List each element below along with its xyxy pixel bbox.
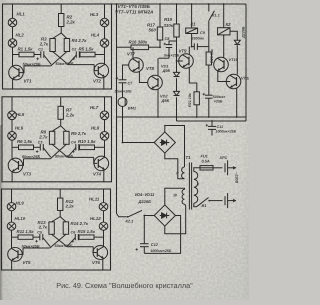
wire emitter left to rail	[12, 79, 14, 89]
wire lamp chain right top	[103, 189, 105, 203]
wire between lamps right	[104, 120, 106, 132]
lamp HL11	[99, 203, 108, 211]
wire lamp to VT collector right	[104, 140, 106, 157]
wire bus to K2.1	[117, 214, 127, 217]
wire C7 to microphone	[122, 83, 124, 98]
resistor R14	[63, 222, 68, 234]
svg-text:HL9: HL9	[16, 201, 25, 206]
lamp HL7	[100, 111, 109, 120]
svg-text:С11: С11	[217, 125, 224, 129]
wire C to base node left	[44, 55, 51, 64]
junction on top rail	[176, 3, 178, 5]
svg-text:Д9Б: Д9Б	[162, 68, 171, 73]
wire top to R	[60, 97, 62, 107]
svg-text:VD4–VD11: VD4–VD11	[135, 192, 155, 197]
capacitor С8	[166, 45, 173, 48]
wire to base of left transistor	[18, 248, 23, 254]
resistor R1	[19, 52, 34, 57]
svg-text:С4: С4	[71, 140, 76, 144]
wire R16 to R17 node	[149, 46, 161, 48]
svg-text:С12: С12	[151, 242, 159, 247]
dashed frame of multivibrator block 2	[2, 97, 112, 182]
lamp HL4	[100, 39, 109, 48]
wire top to R	[60, 4, 62, 14]
lamp HL5	[8, 111, 17, 120]
wire C11 stub	[211, 129, 213, 135]
wire main vertical bus	[116, 4, 118, 214]
lamp HL1	[8, 18, 17, 27]
capacitor С5	[40, 234, 43, 240]
transistor VT11	[226, 74, 241, 89]
wire R to split	[60, 27, 62, 34]
svg-text:50мк×25Б: 50мк×25Б	[55, 155, 73, 159]
svg-text:0,5А: 0,5А	[202, 158, 210, 163]
wire rail to K2	[223, 4, 225, 28]
wire lamp chain left top	[11, 189, 13, 203]
junction on lower rail	[236, 116, 238, 118]
svg-text:R6 1,5к: R6 1,5к	[17, 139, 33, 144]
capacitor С10	[205, 95, 213, 98]
wire lamp chain left top	[11, 97, 13, 111]
resistor R15	[79, 235, 94, 239]
relay K2	[218, 28, 230, 35]
svg-text:5мк×25Б: 5мк×25Б	[164, 54, 180, 58]
wire lamp chain right top	[104, 4, 106, 18]
svg-text:R5 1,5к: R5 1,5к	[79, 46, 95, 51]
wire lamp to VT collector left	[11, 140, 13, 158]
svg-text:VT2: VT2	[93, 79, 102, 84]
lamp HL6	[8, 132, 17, 141]
svg-text:2,7к: 2,7к	[39, 42, 49, 47]
wire between lamps left	[12, 27, 14, 39]
wire VT9 collector up	[188, 47, 190, 55]
wire emitter right to rail	[103, 77, 105, 89]
svg-text:2,2к: 2,2к	[66, 20, 76, 25]
junction on lower rail	[208, 116, 210, 118]
plus sign	[136, 248, 139, 251]
plug XP1 lower pin	[225, 193, 228, 208]
wire rail to K1.1	[208, 4, 210, 12]
junction on lower rail	[176, 116, 178, 118]
svg-text:ВМ1: ВМ1	[128, 106, 136, 111]
svg-text:VT7–VT11 МП42А: VT7–VT11 МП42А	[115, 10, 153, 15]
junction on top rail	[116, 3, 118, 5]
wire bridge2 top to winding III	[165, 188, 185, 205]
wire lamp to VT collector right	[103, 230, 105, 246]
wire K2.1 to bridge VD8-VD11	[145, 215, 155, 217]
resistor R13	[49, 222, 54, 234]
svg-text:HL10: HL10	[15, 216, 26, 221]
svg-text:Рис. 49. Схема "Волшебного кри: Рис. 49. Схема "Волшебного кристалла"	[56, 281, 193, 290]
wire right edge join	[245, 117, 247, 121]
svg-text:R9 2,7к: R9 2,7к	[71, 131, 87, 136]
junction	[191, 46, 193, 48]
wire switch to plug	[209, 200, 222, 202]
junction	[159, 46, 161, 48]
transistor VT3	[8, 158, 23, 173]
svg-text:2,2к: 2,2к	[65, 204, 75, 209]
plus sign	[72, 240, 75, 242]
svg-text:R21 10к: R21 10к	[188, 92, 192, 107]
transistor VT10	[214, 57, 229, 72]
winding III	[182, 189, 184, 204]
winding II	[182, 167, 185, 179]
svg-text:R11 1,5к: R11 1,5к	[17, 229, 35, 234]
wire split right diagonal	[60, 217, 66, 222]
wire collector node right	[95, 146, 105, 148]
lamp HL10	[7, 222, 16, 230]
svg-text:В1: В1	[202, 203, 207, 208]
wire VT9 base to diodes	[177, 60, 183, 62]
lamp HL8	[100, 132, 109, 141]
wire split left diagonal	[52, 217, 61, 222]
wire bridge top to winding II	[165, 126, 185, 168]
wire VT9 emitter to R21	[189, 67, 197, 92]
wire VD1 to VD2	[176, 78, 178, 91]
svg-text:ХР1: ХР1	[219, 155, 227, 160]
wire R21 to lower rail	[196, 105, 198, 117]
wire VT8 emitter to lower rail	[157, 89, 159, 117]
transistor VT1	[9, 65, 24, 80]
svg-text:50мк×25Б: 50мк×25Б	[23, 62, 41, 66]
wire between lamps left	[11, 211, 13, 222]
wire cross right-to-left	[51, 52, 67, 66]
svg-text:VT1–VT6 П39Б: VT1–VT6 П39Б	[118, 4, 151, 9]
wire winding I bottom to switch	[194, 203, 197, 207]
svg-text:Д226Б: Д226Б	[138, 199, 152, 204]
wire C7 top lead	[122, 72, 124, 80]
svg-text:Т1: Т1	[186, 155, 192, 160]
svg-text:500мк×: 500мк×	[213, 95, 226, 99]
capacitor С4	[76, 144, 79, 151]
resistor R7	[58, 106, 63, 119]
wire base VT left	[23, 247, 50, 249]
wire emitter right to rail	[102, 258, 104, 270]
wire collector left	[12, 65, 14, 68]
svg-text:HL8: HL8	[91, 125, 100, 130]
wire lamp to VT collector left	[11, 230, 13, 247]
wire right edge bus	[245, 4, 247, 117]
capacitor С11	[208, 126, 216, 129]
svg-text:К1.1: К1.1	[212, 13, 220, 18]
wire VT7 collector up	[132, 47, 134, 59]
capacitor С6	[75, 234, 78, 240]
wire between lamps right	[104, 27, 106, 39]
wire collector node right	[94, 236, 104, 238]
wire cross left-to-right	[52, 234, 68, 246]
wire lamp chain right top	[104, 97, 106, 111]
wire R19 to VD1 node	[176, 37, 178, 61]
wire C12 bottom	[143, 247, 145, 254]
svg-text:К2: К2	[226, 22, 232, 27]
wire C to base node right	[68, 55, 76, 64]
svg-text:VT11: VT11	[241, 76, 249, 81]
svg-text:К1: К1	[191, 22, 197, 27]
diode VD3	[234, 40, 240, 44]
svg-text:2,2к: 2,2к	[65, 112, 75, 117]
wire R to C right	[77, 236, 80, 238]
capacitor С9	[194, 43, 197, 50]
plus sign	[206, 124, 209, 127]
plus sign	[73, 58, 76, 61]
wire to base of left transistor	[19, 66, 24, 73]
wire collector left	[11, 157, 13, 160]
wire base VT right	[67, 246, 93, 248]
svg-text:3300мк: 3300мк	[192, 37, 205, 41]
wire bus to R16	[117, 46, 132, 48]
wire C8 to VT8 collector	[159, 57, 170, 59]
svg-text:VT8: VT8	[146, 66, 155, 71]
svg-text:Д9Б: Д9Б	[161, 98, 170, 103]
resistor R17	[157, 27, 162, 40]
resistor R9	[64, 131, 69, 144]
junction on top rail	[223, 3, 225, 5]
wire base VT left	[24, 158, 51, 160]
svg-text:R20 56к: R20 56к	[210, 48, 214, 63]
wire collector node left	[12, 236, 19, 238]
wire R17 to node	[159, 40, 161, 47]
svg-text:560: 560	[149, 28, 157, 33]
junction on top rail	[159, 3, 161, 5]
wire C to base node right	[67, 238, 75, 247]
svg-text:50мк×10Б: 50мк×10Б	[115, 90, 133, 94]
wire top supply rail	[112, 3, 246, 5]
wire winding I top to fuse	[194, 168, 200, 172]
wire R to split	[60, 119, 62, 126]
svg-text:×25Б: ×25Б	[214, 100, 223, 104]
transistor VT4	[94, 156, 109, 171]
wire base VT right	[68, 64, 94, 66]
capacitor С7	[119, 80, 127, 83]
svg-text:HL12: HL12	[90, 216, 101, 221]
svg-text:R1 1,5к: R1 1,5к	[18, 46, 34, 51]
transistor VT7	[129, 58, 144, 73]
resistor R2	[59, 14, 64, 27]
svg-text:R19: R19	[164, 17, 173, 22]
resistor R11	[18, 235, 33, 239]
svg-text:R15 1,5к: R15 1,5к	[78, 229, 96, 234]
junction on lower rail	[196, 116, 198, 118]
plug XP1 upper pin	[225, 160, 228, 175]
wire R to split	[59, 210, 61, 216]
wire split right diagonal	[61, 126, 67, 132]
wire collector right	[104, 156, 106, 158]
svg-text:50мк×25Б: 50мк×25Б	[22, 245, 40, 249]
wire to C9 left plate	[192, 46, 195, 48]
svg-text:Д226Б: Д226Б	[242, 26, 246, 39]
svg-text:К2.1: К2.1	[126, 219, 134, 224]
wire lamp to VT collector left	[12, 47, 14, 65]
wire lower rail	[117, 116, 247, 118]
transistor VT2	[94, 63, 109, 78]
wire C to base node left	[43, 148, 50, 157]
resistor R19	[174, 24, 179, 37]
svg-text:1000мк×25Б: 1000мк×25Б	[150, 249, 172, 253]
svg-text:R16 380к: R16 380к	[129, 39, 148, 44]
transistor VT9	[179, 54, 194, 69]
junction on top rail	[191, 3, 193, 5]
wire split right diagonal	[61, 33, 67, 39]
arrowheads for plug pins	[233, 166, 236, 169]
wire K1.1 down to R20	[208, 21, 210, 52]
capacitor С12	[140, 244, 149, 247]
wire between lamps left	[11, 120, 13, 132]
wire R to C left	[34, 54, 41, 56]
wire VT7 base to C7	[123, 65, 129, 72]
wire C9 to K1.1 column	[197, 46, 208, 48]
bridge rectifier VD8-VD11	[154, 205, 175, 226]
wire split left diagonal	[53, 33, 62, 39]
plus sign	[72, 150, 75, 153]
wire to base of right transistor	[94, 157, 98, 163]
wire C8 bottom	[168, 48, 170, 59]
svg-text:VT1: VT1	[24, 79, 33, 84]
wire to base of right transistor	[94, 65, 98, 71]
wire VT11 emitter to lower rail	[236, 88, 238, 117]
svg-text:VT9: VT9	[179, 49, 188, 54]
wire to VD1	[176, 61, 178, 72]
svg-text:VT6: VT6	[92, 260, 101, 265]
svg-text:2,7к: 2,7к	[38, 225, 48, 230]
wire second lower rail	[177, 120, 247, 122]
wire to base of left transistor	[19, 159, 24, 166]
svg-text:VT7: VT7	[127, 52, 136, 57]
wire VT7 emitter to VT8 base	[139, 71, 147, 82]
resistor R16	[131, 45, 149, 50]
capacitor С2	[76, 51, 79, 58]
svg-text:HL7: HL7	[90, 105, 99, 110]
wire R to C right	[78, 146, 81, 148]
svg-text:С1: С1	[38, 48, 43, 52]
switch contact К2.1	[127, 216, 129, 218]
wire collector right	[103, 245, 105, 247]
junction	[176, 60, 178, 62]
junction on top rail	[208, 3, 210, 5]
capacitor С3	[40, 144, 43, 151]
svg-text:2,7к: 2,7к	[38, 135, 48, 140]
fuse FU1	[200, 166, 213, 170]
wire rail to K1	[191, 4, 193, 28]
wire base VT right	[68, 156, 94, 158]
capacitor С1	[41, 51, 44, 58]
dashed frame of multivibrator block 3	[2, 189, 111, 270]
microphone BM1	[118, 98, 127, 107]
wire K2 to VT10 collector	[223, 35, 225, 58]
switch В1	[197, 198, 209, 207]
transistor VT5	[8, 247, 23, 261]
transistor VT6	[93, 246, 108, 260]
resistor R10	[80, 145, 95, 150]
plus sign	[164, 43, 167, 46]
wire R to C right	[78, 54, 81, 56]
wire VT8 collector up	[157, 58, 159, 76]
resistor R6	[19, 145, 34, 150]
svg-text:50мк×25Б: 50мк×25Б	[22, 155, 40, 159]
lamp HL3	[100, 18, 109, 27]
wire K1 to C9	[191, 34, 193, 47]
svg-text:VT4: VT4	[93, 171, 102, 176]
bridge rectifier VD4-VD7	[154, 132, 175, 153]
transistor VT8	[148, 75, 163, 90]
svg-text:HL4: HL4	[91, 33, 100, 38]
wire rail to C11	[211, 121, 213, 126]
svg-text:HL6: HL6	[15, 125, 24, 130]
wire emitter left to rail	[11, 172, 13, 182]
svg-text:330к: 330к	[164, 23, 174, 28]
svg-text:HL5: HL5	[16, 112, 25, 117]
lamp HL12	[99, 222, 108, 230]
wire rail drop	[176, 117, 178, 121]
wire emitter right to rail	[103, 170, 105, 182]
wire emitter left to rail	[11, 260, 13, 270]
wire split left diagonal	[52, 126, 61, 132]
wire collector right	[104, 63, 106, 65]
plus sign	[116, 77, 119, 80]
wire R20 to C10	[208, 65, 210, 95]
resistor R12	[58, 198, 63, 210]
plus sign	[203, 93, 206, 96]
wire C to base node left	[43, 238, 50, 247]
resistor R5	[80, 52, 95, 57]
plus sign	[36, 58, 39, 61]
wire collector left	[11, 247, 13, 250]
svg-text:VT3: VT3	[23, 171, 32, 176]
diode VD1	[174, 72, 180, 76]
svg-text:HL1: HL1	[17, 12, 26, 17]
wire rail to R19	[176, 4, 178, 24]
wire base VT left	[24, 65, 51, 67]
wire VT10 emitter to VT11 base	[218, 71, 230, 82]
wire to base of right transistor	[93, 247, 97, 253]
wire collector node left	[12, 146, 19, 148]
plus sign	[35, 240, 38, 242]
wire cross right-to-left	[50, 234, 66, 248]
wire K2 to VD3	[230, 31, 237, 40]
resistor R3	[50, 39, 55, 52]
wire VD3 down to VT11 collector	[236, 45, 238, 74]
svg-text:50мк×25Б: 50мк×25Б	[55, 244, 73, 248]
wire to C12	[143, 216, 145, 244]
wire lamp to VT collector right	[104, 47, 106, 64]
svg-text:HL11: HL11	[89, 197, 100, 202]
winding I primary	[194, 172, 198, 204]
junction C11	[211, 120, 213, 122]
wire between lamps right	[103, 211, 105, 222]
wire C10 to lower rail	[208, 98, 210, 117]
wire BM1 down	[122, 107, 124, 143]
wire cross right-to-left	[50, 144, 66, 158]
wire bridge2 right output down	[144, 216, 180, 254]
wire cross left-to-right	[52, 144, 68, 157]
wire fuse to plug	[213, 167, 223, 169]
wire rail to R17	[159, 4, 161, 27]
wire collector node left	[13, 54, 20, 56]
svg-text:HL3: HL3	[90, 12, 99, 17]
svg-text:R10 1,5к: R10 1,5к	[78, 139, 96, 144]
lamp HL9	[7, 203, 16, 211]
wire lamp chain left top	[12, 4, 14, 18]
svg-text:R4 2,7к: R4 2,7к	[72, 38, 88, 43]
resistor R21	[194, 92, 199, 105]
wire cross left-to-right	[53, 52, 69, 65]
junction	[143, 215, 145, 217]
transformer T1 core	[189, 163, 191, 210]
wire winding III bottom loop	[165, 204, 186, 234]
relay K1	[186, 28, 198, 34]
wire C to base node right	[68, 148, 76, 157]
junction on lower rail	[157, 116, 159, 118]
wire BM1 line to bridge VD4-VD7	[123, 142, 155, 144]
